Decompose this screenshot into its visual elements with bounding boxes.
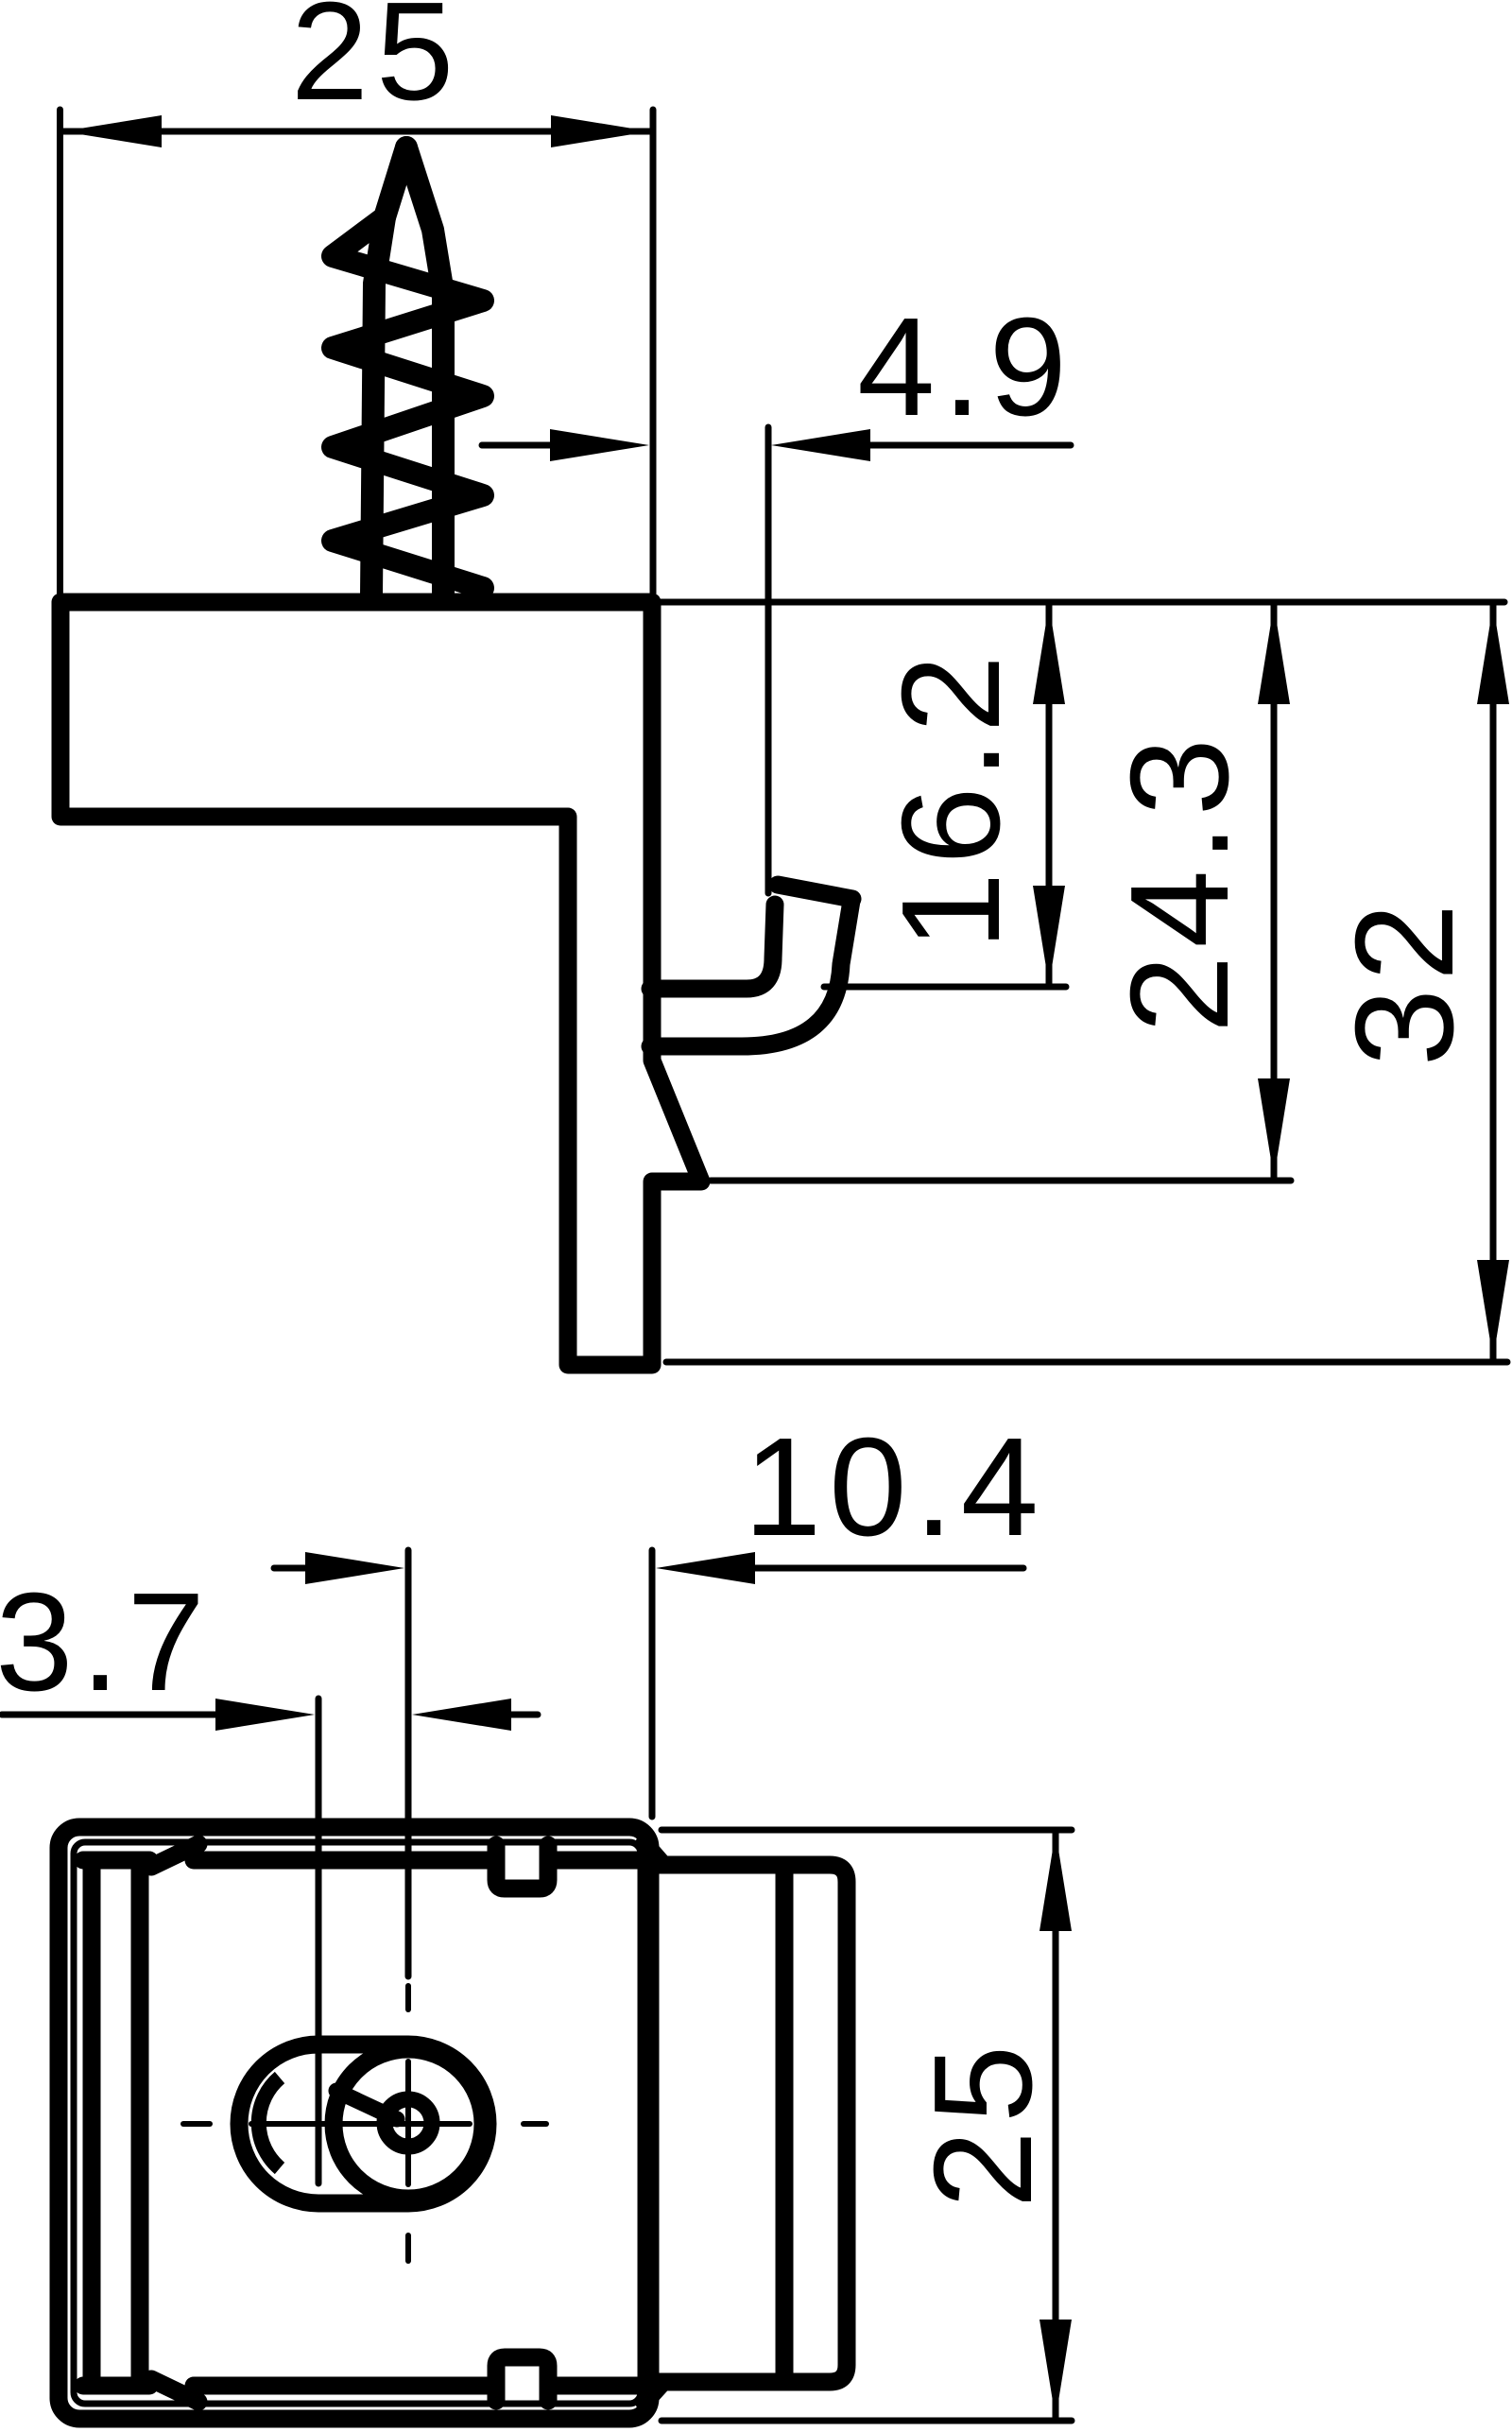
svg-text:10.4: 10.4 <box>744 1409 1046 1565</box>
fold line V2 <box>131 1862 149 2384</box>
top jog connector <box>644 1843 663 1865</box>
dim 3.7 extension (slot arc center) <box>316 1699 322 2183</box>
right spring section outline <box>656 1865 847 2382</box>
front plate bottom edge (right of notch) <box>557 2377 650 2395</box>
front plate top edge (left of notch) <box>194 1852 488 1870</box>
svg-text:3.7: 3.7 <box>0 1564 213 1720</box>
crosshair vertical dashes <box>405 1986 411 2009</box>
svg-text:25: 25 <box>291 0 462 129</box>
dim 3.7 line tails <box>2 1712 215 1718</box>
hook outer curve and tip right face <box>650 901 851 1046</box>
dim 25 extension right <box>650 110 657 594</box>
svg-text:32: 32 <box>1327 896 1483 1067</box>
fold line V1 <box>83 1862 101 2384</box>
screw head circle <box>334 2049 483 2199</box>
slot left inner arc <box>259 2078 280 2168</box>
dim 10.4 extension (screw center) <box>405 1550 412 1976</box>
bracket side-view outline <box>60 602 701 1365</box>
dim 24.3 bottom extension <box>711 1178 1291 1184</box>
slot obround <box>239 2044 488 2203</box>
dim 10.4 line tails <box>274 1565 308 1572</box>
dim 25 (bottom view) line <box>1053 1832 1059 2419</box>
svg-text:24.3: 24.3 <box>1102 731 1258 1033</box>
dim 16.2 bottom extension <box>824 984 1066 991</box>
dim 25 line <box>62 129 650 135</box>
fold bottom chamfer <box>151 2379 198 2402</box>
dim 4.9 line right tail <box>868 442 1071 449</box>
dim 4.9 line left tail <box>482 442 553 449</box>
right section inner vertical <box>776 1867 794 2380</box>
dim 25 (bottom view) bottom extension <box>661 2418 1072 2424</box>
dim 4.9 extension right <box>765 427 772 893</box>
outer body rounded rect <box>59 1827 650 2419</box>
bottom jog connector <box>644 2382 663 2403</box>
screw center annulus <box>385 2099 432 2147</box>
crosshair horizontal <box>183 2121 210 2127</box>
svg-text:16.2: 16.2 <box>873 647 1029 950</box>
inner offset thin outline <box>74 1842 641 2404</box>
dim 16.2 line <box>1046 605 1053 985</box>
top surface extension line <box>659 599 1504 606</box>
screw left shank edge <box>371 217 385 595</box>
fold top chamfer <box>151 1844 198 1867</box>
hook inner floor and tip left face <box>650 905 775 989</box>
dim 25 (bottom view) top extension <box>661 1827 1072 1834</box>
front plate top edge (right of notch) <box>557 1852 650 1870</box>
dim 10.4 extension (body right) <box>649 1550 656 1817</box>
front plate bottom edge (left of notch) <box>194 2377 488 2395</box>
dim 32 line <box>1490 605 1497 1359</box>
screw tip right edge and right shank edge <box>406 147 443 595</box>
dim 32 bottom extension <box>666 1359 1507 1366</box>
screw slot mark <box>336 2091 397 2119</box>
svg-text:4.9: 4.9 <box>857 289 1074 445</box>
bottom notch <box>496 2357 548 2401</box>
screw thread zigzag <box>333 147 483 588</box>
svg-text:25: 25 <box>905 2038 1061 2209</box>
fold top cap <box>83 1852 149 1870</box>
top notch <box>496 1845 548 1889</box>
fold bottom cap <box>83 2377 149 2395</box>
dim 25 extension left <box>57 110 63 596</box>
dim 24.3 line <box>1271 605 1278 1178</box>
hook tip top face <box>778 885 852 899</box>
